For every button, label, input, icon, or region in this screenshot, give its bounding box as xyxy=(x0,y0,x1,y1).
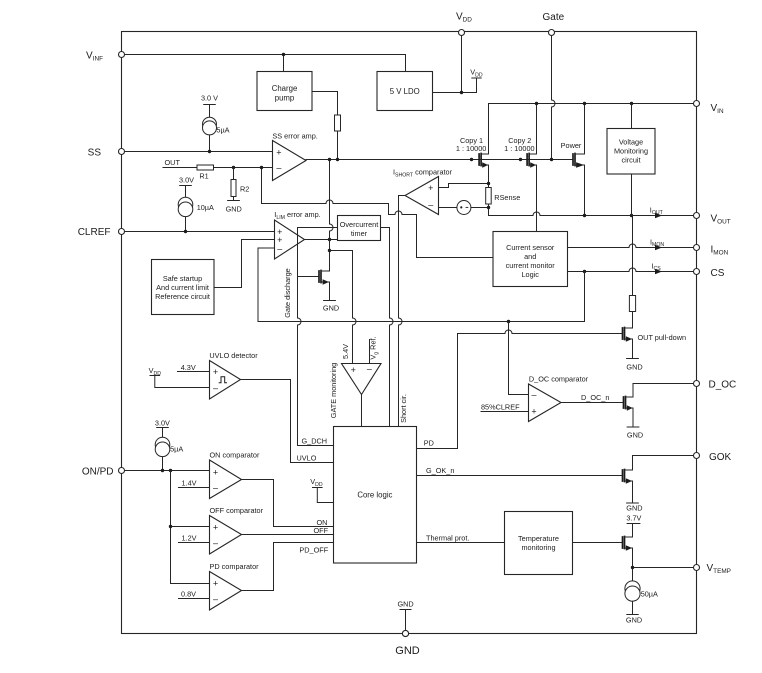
svg-text:D_OC_n: D_OC_n xyxy=(581,393,609,402)
svg-text:CS: CS xyxy=(711,268,725,279)
svg-text:OFF: OFF xyxy=(314,526,329,535)
node junction discharge drain / monitor branch xyxy=(328,249,331,252)
transistor V_TEMP FET xyxy=(623,536,633,581)
wire R2 branch xyxy=(233,168,235,201)
svg-text:1.2V: 1.2V xyxy=(182,534,197,543)
svg-text:Safe startup: Safe startup xyxy=(163,274,202,283)
svg-text:Temperature: Temperature xyxy=(518,534,559,543)
wire D_OC comparator minus branch xyxy=(509,322,529,395)
node junction ON/PD line dots xyxy=(161,469,164,472)
terminal GOK xyxy=(694,453,700,459)
node junction V_TEMP xyxy=(631,566,634,569)
svg-text:1 : 10000: 1 : 10000 xyxy=(456,144,486,153)
ground under R2 xyxy=(228,200,240,202)
node junction V_INF / charge pump xyxy=(282,53,285,56)
svg-text:+: + xyxy=(213,523,218,533)
svg-text:GND: GND xyxy=(397,600,413,609)
svg-text:current monitor: current monitor xyxy=(506,261,556,270)
transistor D_OC_n FET xyxy=(624,384,634,428)
svg-text:+: + xyxy=(213,367,218,377)
svg-text:+: + xyxy=(213,467,218,477)
wire reference source to RSense bottom xyxy=(471,207,489,209)
ground under D_OC FET xyxy=(627,426,639,428)
ground under 50uA xyxy=(627,614,638,616)
node junction feedback branch xyxy=(260,166,263,169)
svg-text:UVLO detector: UVLO detector xyxy=(209,351,258,360)
svg-text:–: – xyxy=(276,163,281,173)
terminal V_IN xyxy=(694,101,700,107)
resistor RSense xyxy=(488,184,490,208)
comparator D_OC xyxy=(529,384,562,422)
wire OFF output to core xyxy=(242,534,334,536)
svg-text:PD: PD xyxy=(424,439,434,448)
ground under GOK FET xyxy=(627,502,639,504)
svg-text:+: + xyxy=(531,407,536,417)
wire R1 to SS amp minus input xyxy=(214,167,273,169)
wire G_DCH from timer/discharge gate down to core (hops feedback bus) xyxy=(298,228,334,446)
svg-text:–: – xyxy=(277,243,282,253)
op-amp UVLO detector xyxy=(210,361,241,400)
box Temperature monitoring xyxy=(505,512,573,575)
current source 5uA at SS xyxy=(204,105,216,152)
svg-text:5.4V: 5.4V xyxy=(341,344,350,359)
node junction LDO output / V_DD xyxy=(460,91,463,94)
svg-text:UVLO: UVLO xyxy=(297,454,317,463)
svg-text:85%CLREF: 85%CLREF xyxy=(481,403,520,412)
current source 50uA xyxy=(625,581,640,596)
svg-text:RSense: RSense xyxy=(494,193,520,202)
terminal SS xyxy=(119,149,125,155)
node junction I_CS / feedback riser xyxy=(583,270,586,273)
svg-text:5µA: 5µA xyxy=(216,126,229,135)
svg-text:GND: GND xyxy=(226,204,242,213)
wire safe startup box to I_LIM amp input 2 xyxy=(214,240,275,288)
wire ON output to core xyxy=(242,480,334,527)
wire V_TEMP line to terminal xyxy=(633,567,694,569)
wire OUT pull-down column from V_OUT rail xyxy=(632,216,634,329)
transistor Copy 1 xyxy=(479,104,488,184)
svg-text:–: – xyxy=(213,383,218,393)
node junction gate bus branch xyxy=(328,158,331,161)
wire I_SHORT minus input to reference source xyxy=(439,207,457,209)
wire I_SHORT output to core logic (short cir., hops feedback bus) xyxy=(399,196,406,427)
svg-text:Reference circuit: Reference circuit xyxy=(155,292,210,301)
svg-text:GND: GND xyxy=(626,362,642,371)
svg-text:And current limit: And current limit xyxy=(156,283,209,292)
svg-text:GND: GND xyxy=(395,645,420,657)
terminal CLREF xyxy=(119,229,125,235)
terminal V_DD xyxy=(459,30,465,36)
wire overcurrent timer left to gate-discharge column xyxy=(298,227,338,229)
svg-text:3.0 V: 3.0 V xyxy=(201,93,218,102)
svg-text:Power: Power xyxy=(561,141,582,150)
wire SS output down-branch to discharge FET drain (hops timer input wire) xyxy=(330,160,334,268)
wire D_OC output to D_OC_n FET xyxy=(561,402,624,404)
wire V_INF rail xyxy=(122,55,406,72)
svg-text:D_OC comparator: D_OC comparator xyxy=(529,375,589,384)
svg-text:ON comparator: ON comparator xyxy=(210,451,260,460)
node junction R2 branch xyxy=(232,166,235,169)
svg-text:+: + xyxy=(276,148,281,158)
terminal CS xyxy=(694,269,700,275)
terminal D_OC xyxy=(694,381,700,387)
svg-text:5µA: 5µA xyxy=(170,445,183,454)
terminal GND xyxy=(402,630,408,636)
svg-text:OUT pull-down: OUT pull-down xyxy=(638,333,687,342)
box charge pump xyxy=(257,72,312,111)
svg-text:3.0V: 3.0V xyxy=(155,419,170,428)
ground under discharge FET xyxy=(324,300,336,302)
svg-text:10µA: 10µA xyxy=(197,203,214,212)
svg-text:Current sensor: Current sensor xyxy=(506,243,555,252)
svg-text:G_DCH: G_DCH xyxy=(302,437,328,446)
svg-text:4.3V: 4.3V xyxy=(181,363,196,372)
wire PD output to core (PD_OFF) xyxy=(242,543,334,591)
wire voltage monitoring taps xyxy=(631,104,633,216)
svg-text:ON/PD: ON/PD xyxy=(82,467,114,478)
wire 85%CLREF to D_OC plus input xyxy=(481,411,529,413)
svg-text:GND: GND xyxy=(323,303,339,312)
node junction gate bus / CP resistor xyxy=(336,158,339,161)
svg-text:GND: GND xyxy=(626,616,642,625)
svg-text:Overcurrent: Overcurrent xyxy=(340,220,379,229)
svg-text:circuit: circuit xyxy=(621,156,640,165)
wire 50uA to ground xyxy=(632,601,634,614)
wire overcurrent timer output to core logic (hops feedback bus) xyxy=(381,228,394,427)
resistor R2 xyxy=(231,180,236,197)
node junction RSense top xyxy=(487,182,490,185)
power tap V_DD symbol near LDO xyxy=(472,77,481,79)
svg-text:–: – xyxy=(213,594,218,604)
svg-text:CLREF: CLREF xyxy=(78,227,111,238)
resistor OUT pull-down xyxy=(629,296,635,312)
svg-text:Core logic: Core logic xyxy=(357,491,392,500)
wire Thermal prot from core to temperature box xyxy=(417,542,505,544)
wire I_CS line (hops pulldown column) xyxy=(568,268,694,271)
svg-text:Monitoring: Monitoring xyxy=(614,147,648,156)
box Overcurrent timer xyxy=(338,216,381,241)
svg-text:and: and xyxy=(524,252,536,261)
terminal V_INF xyxy=(119,52,125,58)
wire I_SHORT plus input to RSense top xyxy=(439,184,489,188)
comparator I_SHORT (points left) xyxy=(405,177,439,215)
terminal V_OUT xyxy=(694,213,700,219)
svg-text:5 V LDO: 5 V LDO xyxy=(390,87,420,96)
node junction SS / 5uA xyxy=(208,150,211,153)
wire current-limit feedback bus (riser from I_CS line) xyxy=(258,248,585,322)
transistor gate discharge FET xyxy=(298,267,330,301)
svg-text:–: – xyxy=(213,483,218,493)
svg-text:Thermal prot.: Thermal prot. xyxy=(426,533,469,542)
node junction V_OUT rail dots xyxy=(583,214,586,217)
wire SS error amp minus feedback to current sensor (two hops) xyxy=(262,168,494,258)
wire I_MON line (hops pulldown column) xyxy=(568,244,694,248)
comparator ON xyxy=(210,460,242,499)
svg-text:GND: GND xyxy=(626,503,642,512)
op-amp SS error amp xyxy=(273,141,307,181)
terminal V_TEMP xyxy=(694,565,700,571)
wire ON/PD branch to OFF and PD comparators xyxy=(171,471,210,584)
svg-text:3.7V: 3.7V xyxy=(626,514,641,523)
wire D_OC FET drain to terminal xyxy=(633,383,694,385)
wire GATE monitoring output to core xyxy=(361,395,363,427)
wire 0.8V to PD minus xyxy=(179,598,210,600)
node junction gate bus at Gate line xyxy=(550,158,553,161)
svg-text:OUT: OUT xyxy=(165,158,181,167)
svg-text:D_OC: D_OC xyxy=(709,379,737,390)
svg-text:SS: SS xyxy=(88,147,102,158)
svg-text:Charge: Charge xyxy=(272,84,298,93)
ground under OUT pull-down xyxy=(627,358,639,360)
svg-text:GND: GND xyxy=(627,431,643,440)
terminal ON/PD xyxy=(119,468,125,474)
wire temperature box to temp FET gate xyxy=(573,542,623,544)
svg-text:Short cir.: Short cir. xyxy=(399,394,408,423)
svg-text:–: – xyxy=(531,390,536,400)
svg-text:–: – xyxy=(367,364,372,374)
box Voltage Monitoring circuit xyxy=(607,129,655,175)
wire gate bus xyxy=(306,159,573,161)
comparator GATE monitoring (points down) xyxy=(342,364,382,395)
svg-text:G_OK_n: G_OK_n xyxy=(426,466,454,475)
node junction feedback bus / D_OC branch xyxy=(507,320,510,323)
svg-text:R2: R2 xyxy=(240,185,249,194)
transistor GOK FET xyxy=(623,456,633,504)
svg-text:pump: pump xyxy=(275,94,295,103)
svg-text:Gate: Gate xyxy=(543,12,565,23)
wire CLREF line xyxy=(122,231,275,233)
svg-text:Logic: Logic xyxy=(521,270,539,279)
node junction RSense bottom xyxy=(487,206,490,209)
box Safe startup reference xyxy=(152,260,215,315)
wire 4.3V to UVLO plus xyxy=(178,371,210,373)
svg-text:GOK: GOK xyxy=(709,452,732,463)
wire PD to OUT pull-down gate (hops D_OC branch) xyxy=(417,330,623,448)
svg-text:PD comparator: PD comparator xyxy=(210,562,260,571)
transistor Copy 2 xyxy=(527,104,536,232)
svg-text:GATE monitoring: GATE monitoring xyxy=(329,363,338,418)
svg-text:+: + xyxy=(351,365,356,375)
wire gate node to GATE monitoring plus (hops feedback bus) xyxy=(330,251,357,364)
comparator OFF xyxy=(210,516,242,555)
svg-text:–: – xyxy=(213,538,218,548)
wire OUT to R1 xyxy=(163,167,197,169)
node junction gate bus at Copy2 xyxy=(519,158,522,161)
svg-text:3.0V: 3.0V xyxy=(179,175,194,184)
svg-text:PD_OFF: PD_OFF xyxy=(299,545,328,554)
wire charge pump supply xyxy=(283,55,285,72)
node junction gate bus at Copy1 xyxy=(470,158,473,161)
box 5 V LDO xyxy=(377,72,433,111)
current source 10uA at CLREF xyxy=(180,186,192,232)
svg-text:1 : 10000: 1 : 10000 xyxy=(504,144,534,153)
wire charge pump output to gate bus xyxy=(312,92,338,160)
transistor OUT pull-down FET xyxy=(623,327,633,359)
wire V_g Ref stub xyxy=(369,340,371,364)
svg-text:50µA: 50µA xyxy=(641,590,658,599)
svg-text:+: + xyxy=(213,579,218,589)
svg-text:OFF comparator: OFF comparator xyxy=(210,506,264,515)
resistor R1 xyxy=(197,165,214,170)
box Current sensor and current monitor Logic xyxy=(493,232,568,287)
box Core logic xyxy=(334,427,417,564)
wire SS line xyxy=(122,151,273,153)
wire 1.4V to ON minus xyxy=(179,487,210,489)
svg-text:Voltage: Voltage xyxy=(619,137,643,146)
reference source circle at I_SHORT minus xyxy=(457,201,471,215)
svg-text:–: – xyxy=(428,199,433,209)
op-amp I_LIM error amp (3 inputs) xyxy=(275,220,305,259)
node junction OFF branch xyxy=(169,525,172,528)
node junction V_IN rail dots xyxy=(535,102,538,105)
terminal Gate xyxy=(549,30,555,36)
svg-text:+: + xyxy=(428,183,433,193)
wire Gate terminal to gate bus (hops V_IN rail) xyxy=(552,35,556,160)
svg-text:Gate discharge: Gate discharge xyxy=(283,268,292,318)
wire V_DD terminal to LDO output xyxy=(461,35,463,93)
svg-text:R1: R1 xyxy=(199,171,208,180)
wire V_IN rail xyxy=(489,103,694,105)
transistor Power FET xyxy=(573,104,585,216)
wire G_OK_n from core to GOK FET xyxy=(417,475,623,477)
wire ON/PD line xyxy=(122,470,210,472)
terminal I_MON xyxy=(694,245,700,251)
wire I_LIM output to overcurrent timer xyxy=(305,239,338,241)
svg-text:monitoring: monitoring xyxy=(521,543,555,552)
svg-text:timer: timer xyxy=(351,229,368,238)
svg-text:1.4V: 1.4V xyxy=(182,478,197,487)
svg-text:SS error amp.: SS error amp. xyxy=(272,131,317,140)
wire V_OUT rail (hops Copy2 source) xyxy=(489,208,694,216)
comparator PD xyxy=(210,572,242,611)
node junction CLREF / 10uA xyxy=(184,230,187,233)
outer frame (device boundary) xyxy=(122,32,697,634)
resistor charge pump series xyxy=(335,115,341,131)
wire GOK FET drain to terminal xyxy=(633,455,694,457)
wire LDO output to V_DD tap xyxy=(433,78,477,93)
wire 1.2V to OFF minus xyxy=(179,542,210,544)
wire UVLO output to core logic xyxy=(241,380,334,463)
svg-text:0.8V: 0.8V xyxy=(181,590,196,599)
node junction I_LIM output / gate node column xyxy=(328,238,331,241)
